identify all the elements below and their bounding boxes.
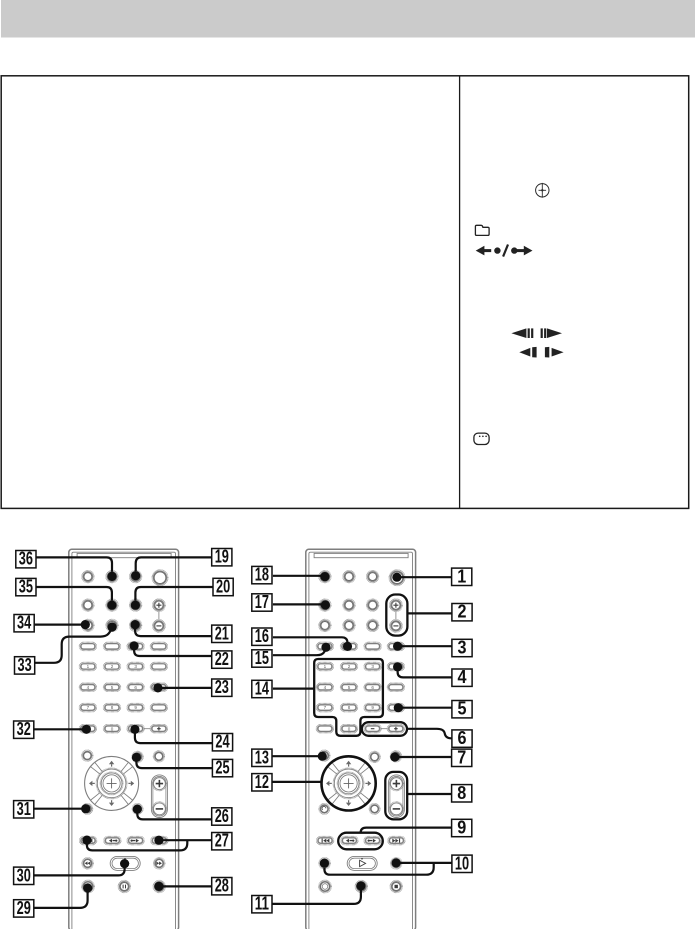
dot 22 <box>130 641 139 650</box>
callout 28 <box>212 878 232 895</box>
leader 17 <box>273 603 326 605</box>
dot 23 <box>153 683 162 692</box>
leader 26 <box>137 813 212 820</box>
symbol slash <box>503 245 508 257</box>
svg-text:23: 23 <box>215 677 229 697</box>
highlight 6 <box>362 722 407 736</box>
symbol back-arrow (previous) <box>476 246 492 256</box>
callout 32 <box>14 721 34 738</box>
dot 26 <box>133 805 142 814</box>
svg-text:19: 19 <box>215 547 229 567</box>
right remote <box>306 549 416 929</box>
highlight 12 <box>322 756 376 810</box>
dot 7 <box>390 752 399 761</box>
leader 31 <box>33 808 85 810</box>
svg-text:27: 27 <box>215 831 229 851</box>
dot 19 <box>131 571 140 580</box>
leader 33 <box>35 630 112 663</box>
svg-text:18: 18 <box>255 565 269 585</box>
leader 15 <box>273 649 326 655</box>
callout 13 <box>252 749 272 766</box>
dot 35 <box>107 601 116 610</box>
leader 36 <box>36 557 112 571</box>
svg-text:11: 11 <box>255 894 269 914</box>
leader 8 <box>408 793 452 795</box>
callout 5 <box>452 701 472 718</box>
dot 16 <box>343 642 352 651</box>
highlight 14 <box>314 659 383 736</box>
dot 27b <box>82 836 91 845</box>
leader 25 <box>136 761 212 768</box>
callout 33 <box>15 657 35 674</box>
dot 17 <box>321 600 330 609</box>
callout 36 <box>16 551 36 568</box>
leader 21 <box>135 629 212 637</box>
dot 10b <box>320 859 329 868</box>
callout 35 <box>16 578 36 595</box>
callout 24 <box>212 734 232 751</box>
dot 27 <box>154 836 163 845</box>
leader 2 <box>408 612 453 614</box>
leader 7 <box>395 756 452 758</box>
svg-text:36: 36 <box>19 549 33 569</box>
callout 8 <box>452 785 472 802</box>
svg-text:20: 20 <box>216 577 230 597</box>
dot 33 <box>108 622 117 631</box>
leader 13 <box>270 755 322 757</box>
callout 10 <box>452 855 472 872</box>
callout 34 <box>14 615 34 632</box>
leader 3 <box>398 645 452 647</box>
leader 34 <box>35 623 86 625</box>
callout 31 <box>14 801 34 818</box>
callout 26 <box>212 808 232 825</box>
svg-text:12: 12 <box>255 772 269 792</box>
dot 20 <box>131 601 140 610</box>
symbol circled-plus <box>536 183 549 198</box>
leader 24 <box>135 733 213 743</box>
highlight 8 <box>385 772 407 820</box>
leader 22 <box>134 650 212 657</box>
callout 19 <box>212 549 232 566</box>
callout 6 <box>452 730 472 747</box>
svg-text:15: 15 <box>255 648 269 668</box>
svg-text:32: 32 <box>17 719 31 739</box>
callout 18 <box>252 566 272 583</box>
svg-text:7: 7 <box>457 747 466 767</box>
callout 21 <box>212 625 232 642</box>
left remote <box>69 549 179 929</box>
callout 23 <box>212 679 232 696</box>
dot 3 <box>393 642 402 651</box>
svg-text:10: 10 <box>455 853 469 873</box>
leader 32 <box>33 728 86 730</box>
svg-text:25: 25 <box>215 758 229 778</box>
callout 2 <box>452 604 472 621</box>
svg-text:6: 6 <box>458 728 467 748</box>
callout 20 <box>213 578 233 595</box>
svg-text:28: 28 <box>215 876 229 896</box>
dot 15 <box>321 643 330 652</box>
dot 36 <box>107 572 116 581</box>
svg-text:13: 13 <box>255 747 269 767</box>
leader 19 <box>136 557 212 571</box>
callout 9 <box>452 819 472 836</box>
svg-text:14: 14 <box>255 679 269 699</box>
leader 30 <box>34 867 125 875</box>
svg-text:3: 3 <box>458 638 467 658</box>
dot 32 <box>82 725 91 734</box>
table border <box>1 76 689 509</box>
leader 18 <box>273 575 325 577</box>
dot 25 <box>132 753 141 762</box>
dot 24 <box>130 725 139 734</box>
svg-text:16: 16 <box>255 626 269 646</box>
callout 22 <box>212 651 232 668</box>
symbol dot2 <box>511 247 517 253</box>
svg-text:33: 33 <box>18 655 32 675</box>
svg-text:2: 2 <box>458 602 467 622</box>
dot 30 <box>120 859 129 868</box>
callout 7 <box>452 749 472 766</box>
callout 27 <box>212 833 232 850</box>
callout 1 <box>452 568 472 585</box>
symbol slow-reverse/forward <box>511 328 562 338</box>
dot 31 <box>81 804 90 813</box>
leader 6 <box>407 729 452 739</box>
svg-text:9: 9 <box>457 818 466 838</box>
dot 34 <box>81 620 90 629</box>
highlight 2 <box>386 595 407 636</box>
svg-text:22: 22 <box>215 649 229 669</box>
svg-text:34: 34 <box>17 613 31 633</box>
callout 30 <box>14 867 34 884</box>
svg-text:26: 26 <box>215 806 229 826</box>
leader 4 <box>398 669 452 677</box>
callout 14 <box>252 680 272 697</box>
leader 29 <box>34 892 88 908</box>
dot 4 <box>393 662 402 671</box>
dot 29 <box>83 883 92 892</box>
leader 1 <box>397 576 452 578</box>
leader 35 <box>35 587 112 601</box>
callout 11 <box>252 896 272 913</box>
symbol step-reverse/forward <box>519 347 563 358</box>
leader 5 <box>398 707 452 709</box>
dot 10 <box>392 858 401 867</box>
symbol fwd-arrow (next) <box>517 246 533 256</box>
leader 27 <box>87 840 212 850</box>
highlight 9 <box>338 833 383 850</box>
leader 10 <box>324 863 452 875</box>
svg-text:35: 35 <box>19 577 33 597</box>
symbol dot1 <box>494 247 500 253</box>
callout 25 <box>212 759 232 776</box>
callout 15 <box>252 650 272 667</box>
symbol display window <box>474 433 489 444</box>
dot 11 <box>356 881 365 890</box>
dot 18 <box>320 572 329 581</box>
svg-text:30: 30 <box>17 865 31 885</box>
callout 3 <box>452 639 472 656</box>
svg-text:21: 21 <box>215 623 229 643</box>
callout 4 <box>452 669 472 686</box>
svg-text:1: 1 <box>457 566 466 586</box>
svg-text:17: 17 <box>255 592 269 612</box>
svg-text:5: 5 <box>458 699 467 719</box>
svg-text:24: 24 <box>215 732 229 752</box>
leader 23 <box>158 687 212 689</box>
dot 1 <box>392 573 401 582</box>
leader 12 <box>270 781 322 783</box>
header gray bar <box>1 0 695 38</box>
leader 11 <box>271 889 361 904</box>
leader 16 <box>273 637 348 646</box>
dot 28 <box>154 882 163 891</box>
svg-text:31: 31 <box>17 799 31 819</box>
leader 20 <box>135 587 213 601</box>
callout 29 <box>14 900 34 917</box>
dot 5 <box>394 703 403 712</box>
leader 28 <box>159 885 212 887</box>
svg-text:8: 8 <box>457 783 466 803</box>
leader 14 <box>273 687 314 689</box>
svg-text:29: 29 <box>17 898 31 918</box>
dot 21 <box>131 620 140 629</box>
callout 16 <box>252 628 272 645</box>
dot 13 <box>318 752 327 761</box>
callout 12 <box>252 774 272 791</box>
symbol folder (disc tray) <box>475 225 489 235</box>
callout 17 <box>252 594 272 611</box>
leader 9 <box>361 828 452 833</box>
table column divider <box>459 76 461 509</box>
svg-text:4: 4 <box>458 667 467 687</box>
